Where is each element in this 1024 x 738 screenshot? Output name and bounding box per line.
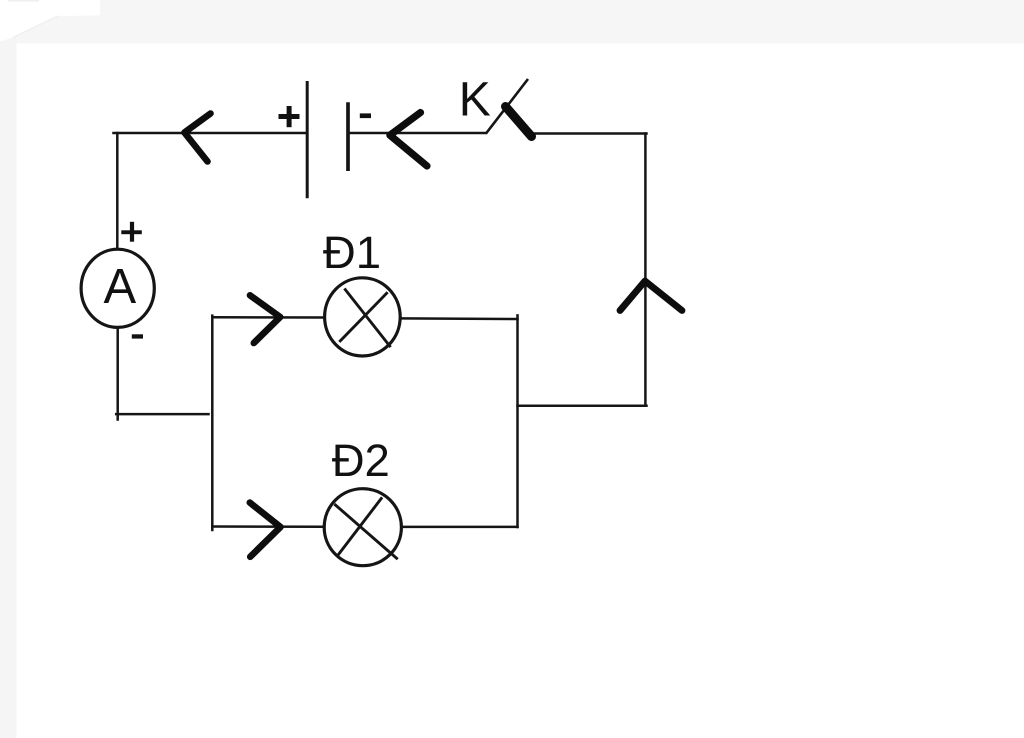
svg-text:K: K (459, 73, 491, 126)
svg-text:Đ1: Đ1 (323, 227, 381, 278)
svg-text:Đ2: Đ2 (332, 435, 390, 486)
svg-text:A: A (104, 260, 137, 314)
